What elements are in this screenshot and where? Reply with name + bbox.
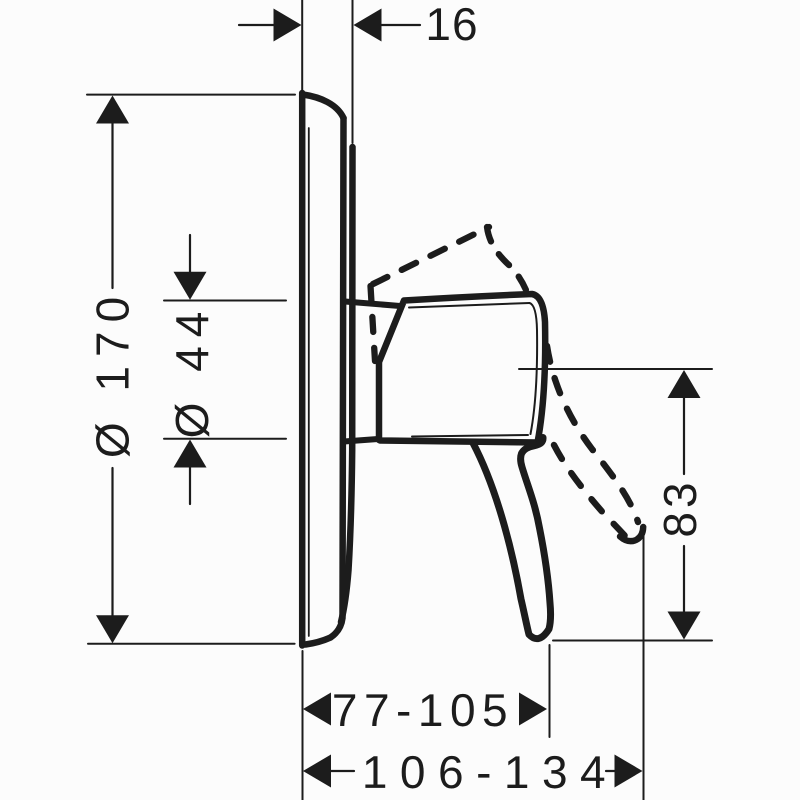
escutcheon plate back dome edge [306,118,344,645]
dim 106-134 right arrow with tail [606,770,616,772]
dim 44 upper arrow pointing down [189,235,191,275]
dim 16 right extension line [352,0,354,143]
dim 170 upper dimension line with up arrow [96,96,129,124]
escutcheon plate front face edge [299,93,306,646]
dim 83 lower dimension line with down arrow [683,546,685,616]
svg-text:83: 83 [654,478,706,537]
dim 77-105 right extension line [549,645,551,737]
dim 44 bottom extension line [164,438,286,440]
dim 106-134 right extension line [643,536,645,800]
dim 170 lower dimension line with down arrow [111,468,113,620]
dim 77-105 right arrow [519,693,547,726]
escutcheon plate top rim curve [303,95,344,119]
escutcheon plate front inner thin line [308,128,310,636]
escutcheon plate wall flange line [341,147,353,622]
dim 83 bottom extension line [553,640,712,642]
dim 16 left extension line [301,0,303,90]
valve stem bottom line [344,439,378,442]
dim 83 upper dimension line with up arrow [668,370,701,398]
handle knob outline [379,294,545,443]
svg-text:Ø 44: Ø 44 [166,303,218,439]
dim 106-134 left arrow with tail [303,755,331,788]
svg-text:Ø 170: Ø 170 [87,288,139,458]
dashed handle right corner edge [487,227,526,290]
svg-text:77-105: 77-105 [332,684,514,736]
svg-text:106-134: 106-134 [362,746,618,798]
dashed handle left edge [371,286,376,361]
valve stem top line [345,302,400,307]
svg-text:16: 16 [425,0,478,50]
dashed lever lower edge [554,445,626,537]
dim 77-105 left arrow [303,693,331,726]
dim 16 left arrow [239,24,276,26]
dashed lever upper edge [547,346,638,522]
dim 83 top extension line [519,368,712,370]
dim 44 top extension line [164,300,286,302]
handle knob inner right line [530,303,538,434]
dashed handle top edge (alternate position) [373,227,489,284]
dashed lever end cap [620,527,643,541]
dim 44 lower arrow pointing up [174,440,207,468]
handle knob inner bottom line [412,435,528,437]
dim 16 right arrow [354,9,382,42]
dim 77-105 left shared extension line [302,651,304,800]
dim 170 bottom extension line [88,643,295,645]
dim 170 top extension line [87,94,295,96]
handle lever [473,438,551,639]
handle knob inner top line [409,303,530,308]
